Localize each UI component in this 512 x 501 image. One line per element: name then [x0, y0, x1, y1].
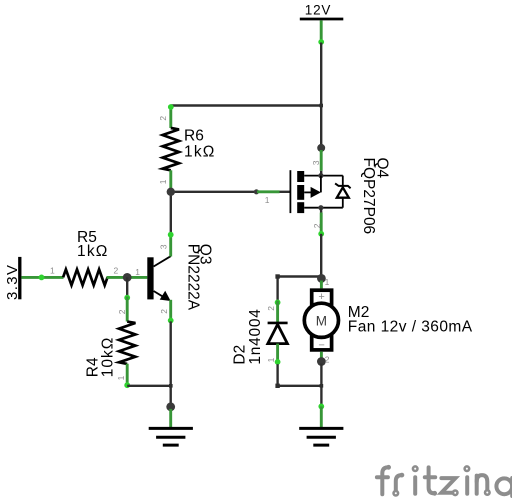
svg-text:1: 1: [116, 375, 126, 380]
svg-text:12V: 12V: [305, 3, 331, 18]
svg-text:R6: R6: [184, 128, 204, 145]
svg-text:2: 2: [159, 309, 169, 314]
svg-text:3: 3: [158, 244, 168, 249]
svg-text:2: 2: [114, 266, 119, 276]
svg-text:1: 1: [158, 179, 168, 184]
svg-text:FQP27P06: FQP27P06: [360, 158, 377, 235]
svg-text:1n4004: 1n4004: [247, 308, 264, 364]
svg-text:M: M: [316, 313, 327, 328]
svg-text:D2: D2: [232, 345, 249, 365]
svg-text:−: −: [318, 339, 324, 351]
svg-text:1kΩ: 1kΩ: [184, 143, 216, 160]
svg-text:Fan 12v / 360mA: Fan 12v / 360mA: [348, 318, 473, 335]
svg-text:2: 2: [266, 306, 276, 311]
svg-text:1: 1: [50, 266, 55, 276]
svg-text:PN2222A: PN2222A: [184, 244, 201, 311]
svg-text:3: 3: [311, 160, 321, 165]
svg-text:10kΩ: 10kΩ: [100, 337, 117, 378]
svg-text:2: 2: [117, 309, 127, 314]
svg-text:+: +: [318, 291, 324, 303]
svg-text:1: 1: [135, 267, 140, 277]
svg-text:1: 1: [265, 195, 270, 205]
svg-text:2: 2: [312, 223, 322, 228]
svg-text:1kΩ: 1kΩ: [77, 243, 109, 260]
svg-text:2: 2: [158, 116, 168, 121]
svg-text:2: 2: [325, 355, 330, 365]
svg-text:1: 1: [325, 277, 330, 287]
svg-text:1: 1: [266, 357, 276, 362]
